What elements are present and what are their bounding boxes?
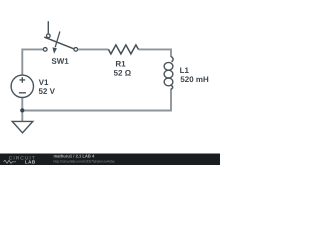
svg-text:LAB: LAB bbox=[25, 160, 36, 165]
wire bottom horizontal bbox=[22, 110, 172, 112]
light connection wires bbox=[22, 49, 172, 122]
V1 minus sign bbox=[19, 92, 26, 94]
switch SW1 top terminal circle bbox=[46, 34, 50, 38]
label V1 value bbox=[39, 88, 55, 94]
voltage source V1 bbox=[11, 75, 33, 97]
watermark logo zigzag bbox=[4, 160, 17, 163]
wire R1 to top-right corner bbox=[138, 49, 171, 57]
switch SW1 blade bbox=[44, 37, 74, 49]
wire V1 bottom to ground bbox=[21, 98, 23, 122]
switch SW1 left terminal circle bbox=[43, 48, 47, 52]
label L1 bbox=[180, 68, 189, 74]
label R1 bbox=[116, 61, 125, 67]
watermark bar bbox=[0, 154, 220, 166]
switch SW1 actuation arrow bbox=[55, 31, 60, 47]
V1 plus sign bbox=[20, 77, 26, 83]
junction dot bbox=[20, 108, 24, 112]
resistor R1 bbox=[108, 45, 138, 54]
ground bbox=[12, 121, 33, 132]
label SW1 bbox=[52, 58, 69, 64]
switch SW1 right terminal circle bbox=[74, 48, 78, 52]
label R1 value bbox=[114, 70, 131, 76]
inductor L1 bbox=[164, 57, 173, 90]
switch arrowhead bbox=[52, 47, 57, 53]
svg-text:mathuru1 / 2.1 LAB 4: mathuru1 / 2.1 LAB 4 bbox=[54, 154, 95, 159]
wire top-left horizontal bbox=[22, 48, 43, 50]
wire left branch vertical bbox=[21, 49, 23, 76]
switch SW1 top stub bbox=[47, 21, 49, 33]
wire L1 bottom to corner bbox=[170, 89, 172, 111]
label V1 bbox=[39, 80, 49, 86]
label L1 value bbox=[181, 76, 209, 82]
svg-text:http://circuitlab.com/c/33t7fy: http://circuitlab.com/c/33t7fyhakrcru4eb… bbox=[54, 159, 115, 163]
wire switch to R1 bbox=[78, 48, 108, 50]
